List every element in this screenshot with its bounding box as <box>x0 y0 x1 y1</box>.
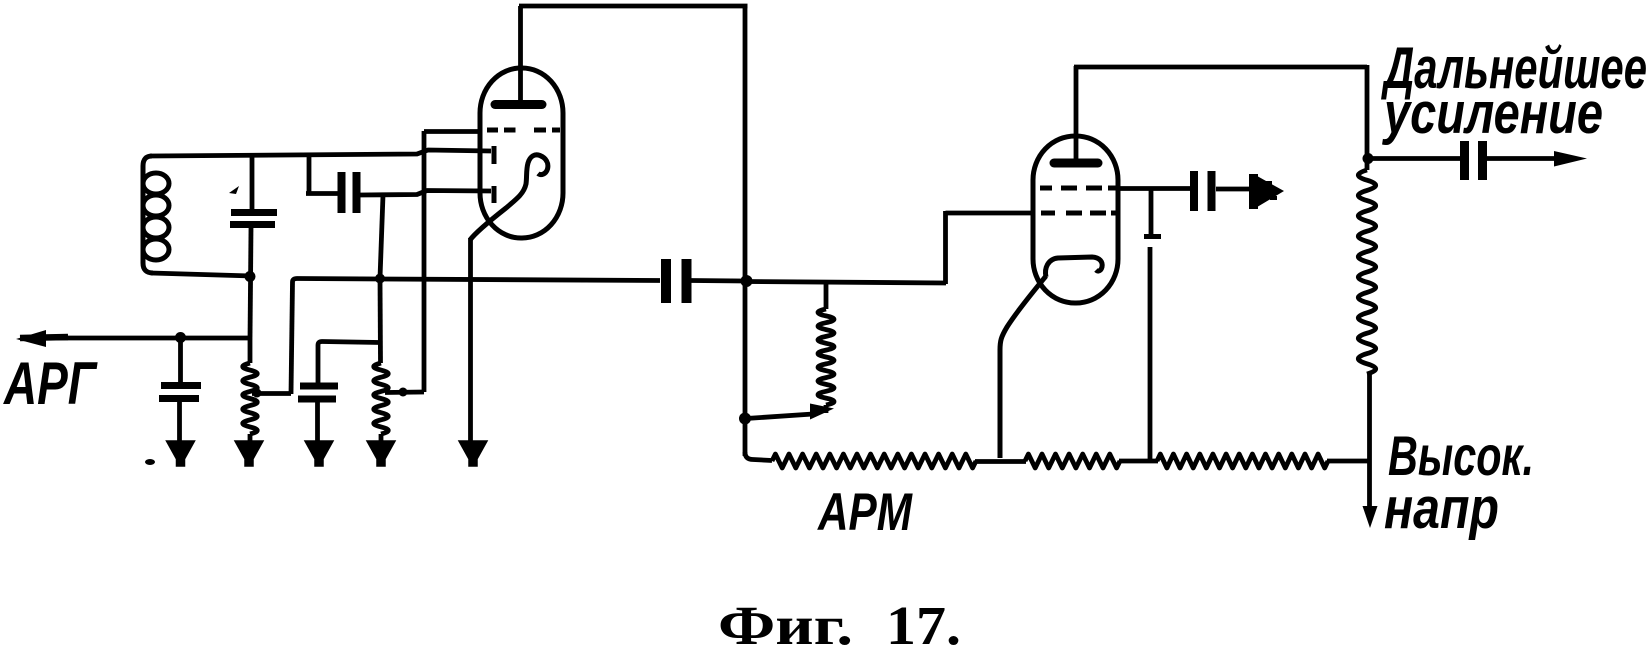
svg-text:АРМ: АРМ <box>816 483 913 542</box>
svg-text:усиление: усиление <box>1382 81 1603 146</box>
svg-text:напр: напр <box>1384 476 1499 541</box>
svg-text:17.: 17. <box>886 595 961 650</box>
svg-text:Фиг.: Фиг. <box>718 595 853 650</box>
svg-text:АРГ: АРГ <box>2 350 98 417</box>
